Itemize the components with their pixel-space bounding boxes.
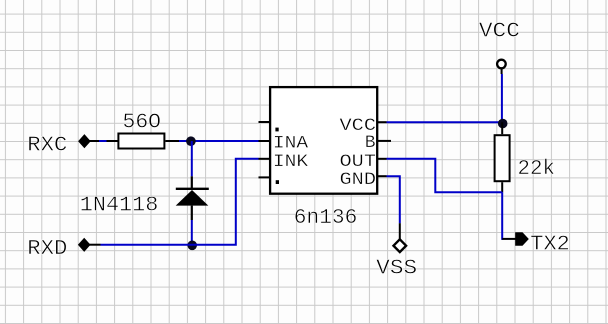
wire RXD to node B and up to IC pin INK — [101, 159, 259, 245]
port RXD diamond — [78, 238, 91, 252]
wire IC pin OUT to node D below resistor 22k — [387, 159, 503, 193]
IC U1 optocoupler 6n136 body — [270, 87, 377, 194]
IC 6n136 pin INA stub — [259, 140, 270, 142]
port TX2 arrow — [515, 232, 529, 246]
diode 1N4118 triangle — [176, 190, 209, 206]
diode 1N4118 cathode lead — [191, 176, 193, 189]
svg-text:22k: 22k — [518, 157, 556, 181]
IC 6n136 pin OUT stub — [377, 158, 386, 160]
svg-text:RXC: RXC — [27, 134, 67, 158]
svg-text:INA: INA — [273, 135, 309, 154]
wire diode anode to node B — [191, 220, 193, 245]
wire node D to port TX2 — [502, 192, 503, 239]
svg-text:VCC: VCC — [479, 19, 520, 43]
wire RXC to resistor 560 — [99, 140, 107, 142]
svg-text:GND: GND — [340, 171, 377, 190]
wire VCC to node C — [501, 74, 503, 122]
power VSS lead — [399, 223, 401, 239]
svg-text:TX2: TX2 — [530, 232, 570, 256]
power VSS diamond — [394, 239, 407, 252]
svg-text:1N4118: 1N4118 — [80, 193, 159, 217]
node C junction dot — [498, 119, 508, 129]
IC 6n136 pin B stub — [377, 140, 391, 142]
node A junction dot — [186, 136, 196, 146]
wire IC pin GND to VSS — [387, 176, 400, 223]
IC 6n136 pin 1 dot — [275, 128, 278, 132]
port RXD pin line — [90, 244, 101, 246]
wire resistor 560 to node A and IC pin INA — [179, 140, 259, 142]
svg-text:VSS: VSS — [376, 256, 417, 280]
IC 6n136 pin VCC stub — [377, 121, 386, 123]
IC 6n136 pin 1 stub (top left) — [259, 121, 270, 123]
resistor 560 left lead — [107, 140, 119, 142]
wire node A to diode cathode — [191, 141, 193, 176]
IC 6n136 pin GND stub — [377, 175, 386, 177]
resistor 22k bottom lead — [501, 182, 503, 192]
svg-text:56O: 56O — [123, 111, 162, 135]
svg-text:OUT: OUT — [340, 153, 377, 172]
port RXC pin line — [90, 140, 100, 142]
power VCC lead — [501, 68, 503, 74]
svg-text:6n136: 6n136 — [294, 206, 358, 230]
diode 1N4118 anode lead — [191, 206, 193, 220]
svg-text:RXD: RXD — [27, 237, 67, 261]
node B junction dot — [187, 241, 197, 251]
resistor 560 right lead — [166, 140, 180, 142]
svg-text:INK: INK — [273, 153, 309, 172]
IC 6n136 pin 4 dot — [276, 180, 279, 184]
resistor 560 body — [118, 134, 164, 149]
IC 6n136 pin INK stub — [259, 158, 270, 160]
port TX2 pin line — [502, 238, 516, 240]
resistor 22k top lead — [501, 122, 503, 134]
svg-text:B: B — [365, 134, 376, 153]
resistor 22k body — [495, 135, 510, 181]
power VCC circle — [497, 60, 506, 69]
IC 6n136 pin 4 stub (bottom left) — [259, 176, 270, 178]
wire IC pin VCC to node C — [387, 121, 503, 123]
diode 1N4118 cathode bar — [176, 188, 209, 190]
port RXC diamond — [78, 134, 91, 148]
